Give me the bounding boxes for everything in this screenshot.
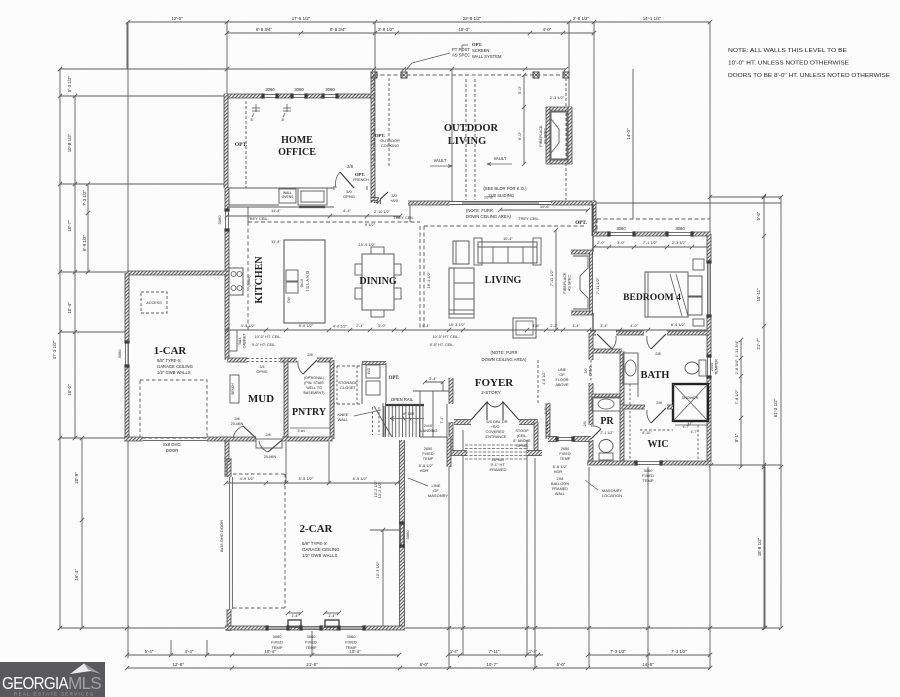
1-car north wall bbox=[127, 271, 228, 275]
top dimension row 3 bbox=[60, 68, 566, 70]
pantry door bbox=[303, 360, 317, 374]
living fireplace bbox=[571, 250, 593, 254]
2-car interior dim bbox=[382, 530, 384, 628]
2-car west door wall bbox=[229, 477, 231, 609]
2-car south wall bbox=[225, 626, 267, 630]
right dimension column bbox=[710, 196, 781, 198]
top dimension row 1 bbox=[128, 21, 710, 23]
bedroom south wall + doors bbox=[590, 331, 596, 335]
sofa left bbox=[449, 268, 474, 314]
line of floor above bbox=[537, 360, 539, 404]
bottom extension lines bbox=[170, 640, 172, 655]
bath west wall bbox=[589, 333, 593, 360]
door mud to garage bbox=[268, 440, 282, 452]
bedroom trey dash bbox=[597, 218, 710, 220]
top extension lines bbox=[127, 22, 129, 658]
wic shelves bbox=[640, 429, 673, 431]
opt w/d closet bbox=[362, 362, 386, 365]
mud south wall bbox=[224, 437, 256, 441]
bedroom dim row bbox=[594, 246, 709, 248]
2-car dashed bay bbox=[284, 474, 286, 608]
georgia mls logo bbox=[0, 662, 105, 697]
wing walls bbox=[288, 620, 301, 627]
bottom dimension row B bbox=[127, 667, 710, 669]
pr toilet bbox=[599, 440, 613, 453]
misc extension lines bbox=[596, 219, 598, 234]
bath toilet bbox=[685, 362, 699, 374]
chair top left bbox=[453, 241, 469, 264]
pantry bbox=[330, 360, 334, 439]
home office walls bbox=[224, 94, 263, 98]
dining table bbox=[362, 254, 394, 310]
outdoor living south wall bbox=[408, 201, 450, 205]
entry walls bbox=[454, 420, 471, 425]
pr walls bbox=[591, 349, 622, 353]
1-car south wall + door bbox=[124, 437, 143, 441]
bath south wall bbox=[587, 461, 636, 465]
masonry wall bbox=[400, 440, 405, 628]
outdoor living fireplace bbox=[546, 107, 572, 111]
mid dimension row bbox=[227, 329, 709, 331]
living trey dashes bbox=[424, 225, 585, 227]
bottom dimension row A bbox=[127, 654, 399, 656]
top dimension row 2 bbox=[227, 32, 594, 34]
kitchen south wall bbox=[227, 358, 247, 362]
stair landing bbox=[419, 391, 421, 437]
2-car east wall window bbox=[399, 523, 401, 546]
bath/wic divider bbox=[622, 405, 645, 409]
storage closet bbox=[332, 366, 362, 404]
outdoor living porch boundary bbox=[374, 74, 566, 76]
bath vanity bbox=[623, 353, 638, 384]
sofa top bbox=[478, 242, 537, 263]
bottom edge line bbox=[60, 627, 780, 629]
kitchen counter line bbox=[227, 206, 334, 208]
mud bench bbox=[230, 375, 239, 403]
window jamb blocks bbox=[261, 93, 264, 98]
range bbox=[229, 268, 243, 295]
front door chevrons bbox=[471, 402, 487, 420]
2-car top dim row bbox=[226, 482, 400, 484]
living bay window west bbox=[409, 205, 411, 222]
bed bbox=[645, 272, 688, 317]
bedroom east wall bbox=[707, 234, 711, 262]
bedroom north wall bbox=[593, 232, 609, 236]
tall cabinet bbox=[229, 330, 237, 351]
kitchen dim row bbox=[227, 215, 400, 217]
1-car dashed parking bbox=[140, 380, 207, 438]
corridor walls bbox=[225, 439, 229, 477]
access panel bbox=[141, 292, 167, 313]
kitchen west wall bbox=[225, 188, 229, 210]
1-car west wall bbox=[125, 273, 129, 342]
left dimension column bbox=[59, 69, 61, 628]
island bbox=[284, 240, 325, 323]
shower bbox=[673, 384, 708, 421]
ottoman bbox=[513, 318, 536, 338]
mud/pantry divider bbox=[284, 360, 288, 439]
front wall right of foyer bbox=[546, 403, 550, 439]
pr door bbox=[591, 429, 601, 439]
pr vanity bbox=[592, 397, 620, 411]
stoop dashes bbox=[465, 444, 528, 446]
home office south cabinets bbox=[226, 187, 334, 189]
wic door bbox=[651, 408, 666, 423]
